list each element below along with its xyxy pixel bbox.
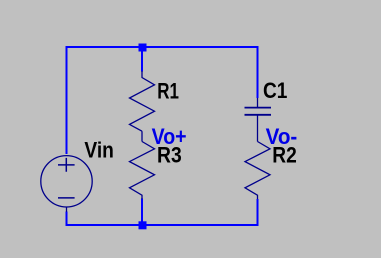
resistor R2	[245, 142, 270, 200]
capacitor C1	[245, 98, 272, 142]
svg-text:R1: R1	[157, 78, 179, 103]
voltage source Vin (circle with + and -)	[41, 156, 92, 212]
resistor R3	[130, 142, 155, 200]
svg-text:Vin: Vin	[84, 138, 114, 163]
resistor R1	[130, 71, 155, 131]
svg-text:C1: C1	[263, 78, 287, 103]
wire: left vertical + top horizontal + right vertical (upper loop)	[67, 47, 258, 154]
wire: left bottom stub + bottom horizontal + right bottom vertical	[67, 199, 258, 225]
wire: middle vertical from top junction down to R1	[141, 47, 143, 72]
wire: node stub between R1 and R3 (node Vo+)	[141, 131, 143, 141]
junction node square (top wire / R1)	[139, 44, 147, 52]
wire: middle vertical from R3 down to bottom junction	[141, 199, 143, 226]
svg-text:R2: R2	[272, 142, 297, 167]
svg-text:R3: R3	[157, 143, 182, 168]
junction node square (bottom wire / R3)	[139, 221, 147, 229]
